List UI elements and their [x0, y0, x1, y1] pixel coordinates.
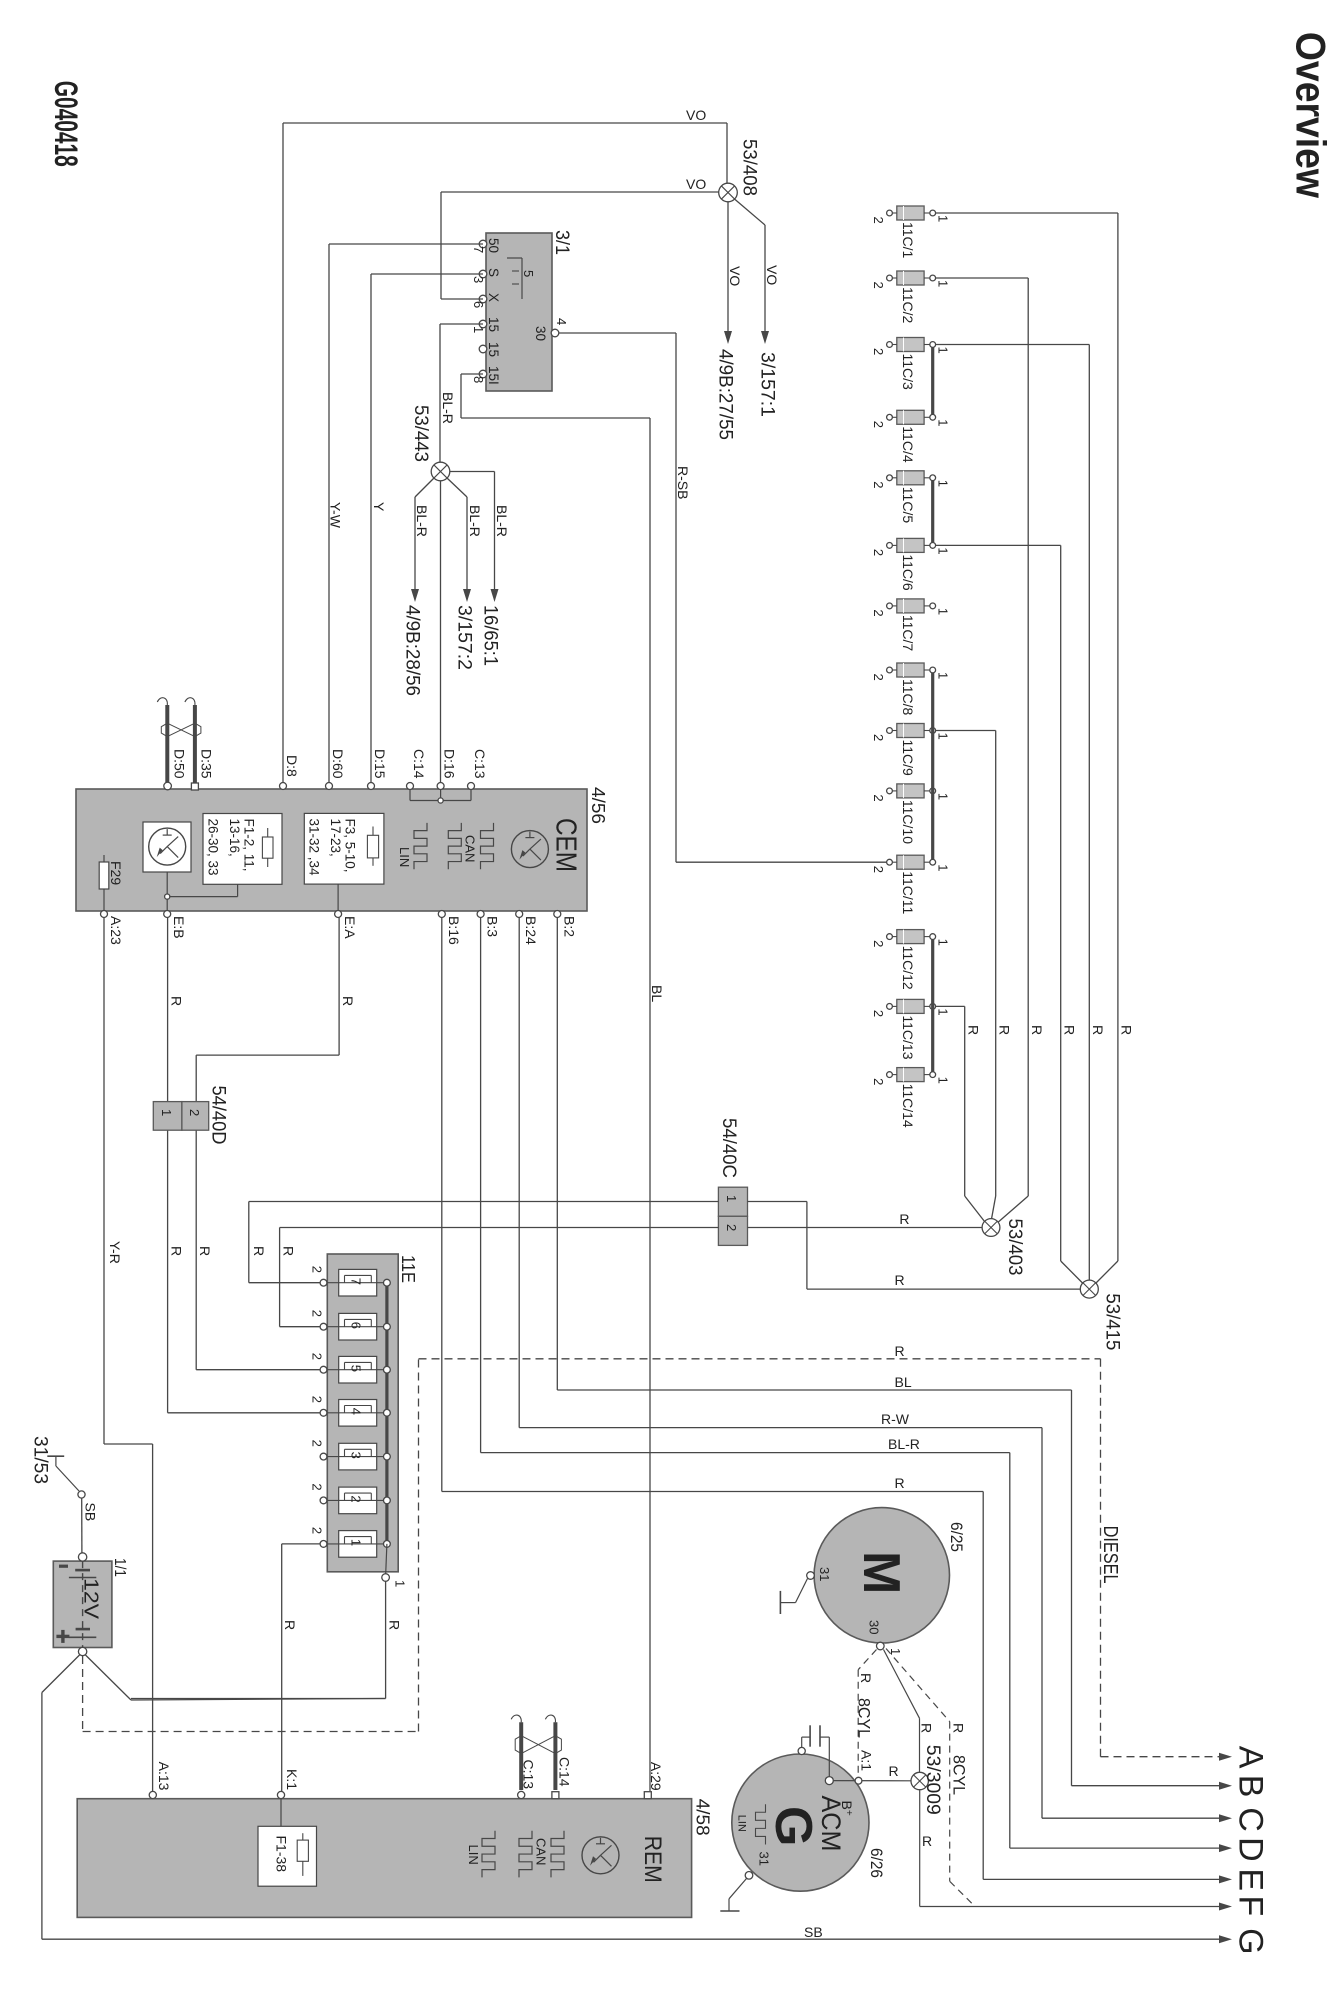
11E fuse 3 right pin — [384, 1453, 391, 1460]
svg-text:4: 4 — [349, 1408, 364, 1415]
svg-text:1: 1 — [724, 1195, 739, 1202]
glow plug 11C/14 — [897, 1068, 924, 1082]
battery pin plus (bottom) — [78, 1647, 86, 1655]
svg-text:11C/9: 11C/9 — [900, 740, 916, 777]
11E fuse 1 right pin — [384, 1541, 391, 1548]
svg-text:F1-38: F1-38 — [274, 1836, 290, 1873]
11E fuse 2 — [339, 1487, 377, 1514]
svg-text:R: R — [1119, 1025, 1135, 1035]
11C/5 pin 2 — [892, 477, 897, 479]
pin 30 (4) — [551, 329, 559, 337]
svg-text:K:1: K:1 — [284, 1769, 300, 1790]
CEM pin C:13 — [468, 783, 475, 790]
svg-text:LIN: LIN — [466, 1845, 481, 1865]
CEM fuse group F1-2, 11, 13-16, 26-30, 33 — [203, 814, 282, 885]
wire BL-R from 3/1 pin 15 to splice 53/443 — [440, 323, 483, 325]
wire R from 11C/9 pin 1 to splice 53/403 — [936, 730, 996, 732]
svg-text:1: 1 — [935, 672, 950, 679]
11C/4 pin 2 — [892, 416, 897, 418]
svg-text:R: R — [197, 1246, 213, 1256]
svg-text:BL-R: BL-R — [888, 1436, 920, 1452]
glow plug 11C/7 — [897, 599, 924, 613]
11E fuse 3 pin 2 — [320, 1453, 327, 1460]
svg-text:R: R — [966, 1025, 982, 1035]
svg-text:1: 1 — [935, 480, 950, 487]
11E fuse 1 pin 2 — [320, 1541, 327, 1548]
svg-text:R: R — [251, 1246, 267, 1256]
wire segment 53/408 down to splice from corner — [726, 123, 728, 184]
11E fuse 7 — [339, 1269, 377, 1296]
svg-text:G: G — [764, 1806, 822, 1846]
pin X (6) — [479, 295, 487, 303]
wire Y-R from CEM A:23 to REM A:13 — [103, 918, 105, 1445]
REM clock symbol — [582, 1837, 619, 1874]
svg-text:53/408: 53/408 — [739, 139, 761, 196]
REM pin K:1 — [277, 1791, 284, 1798]
ACM pin B+ — [825, 1777, 833, 1785]
svg-text:11C/10: 11C/10 — [900, 800, 916, 844]
svg-text:2: 2 — [187, 1109, 202, 1116]
svg-text:E:B: E:B — [171, 916, 187, 939]
11E fuse 6 right pin — [384, 1323, 391, 1330]
ACM suppression capacitor — [809, 1725, 811, 1746]
svg-text:SB: SB — [83, 1503, 99, 1522]
svg-text:31/53: 31/53 — [30, 1436, 51, 1484]
wire R from battery plus to 11E supply rail — [85, 1655, 131, 1701]
splice 53/403 — [982, 1219, 1000, 1237]
svg-text:3/1: 3/1 — [551, 230, 572, 255]
11C/7 pin 1 — [924, 605, 930, 607]
svg-text:30: 30 — [533, 326, 548, 341]
11C/2 pin 1 — [924, 277, 930, 279]
rear electronic module REM 4/58 box — [77, 1799, 691, 1918]
svg-text:53/3009: 53/3009 — [922, 1745, 943, 1815]
svg-text:R: R — [895, 1475, 905, 1491]
fuse box 11E — [327, 1254, 398, 1572]
battery pin minus (top) — [78, 1553, 86, 1561]
svg-text:R: R — [899, 1211, 909, 1227]
svg-text:R: R — [1090, 1025, 1106, 1035]
svg-text:1: 1 — [935, 1077, 950, 1084]
pin S (3) — [479, 270, 487, 278]
11C/2 pin 2 — [892, 277, 897, 279]
REM pin C:14 — [552, 1792, 559, 1799]
CEM LIN symbol — [414, 823, 427, 869]
svg-text:LIN: LIN — [397, 847, 412, 867]
generator ACM 6/26 circle — [732, 1754, 869, 1891]
11E fuse 7 pin 2 — [320, 1279, 327, 1286]
11E fuse 4 right pin — [384, 1409, 391, 1416]
11C/3 pin 2 — [892, 344, 897, 346]
11C/1 pin 2 — [892, 212, 897, 214]
wire VO from 3/1 pin X to splice 53/408 — [441, 298, 483, 300]
CEM pin D:8 — [280, 783, 287, 790]
svg-text:R-W: R-W — [881, 1411, 910, 1427]
wire R from CEM E:A via 54/40D:2 to 11E fuse5 pin 2 — [338, 918, 340, 1056]
wire R from 54/40C pin 2 to splice 53/403 — [748, 1227, 983, 1229]
svg-text:A:13: A:13 — [156, 1762, 172, 1791]
battery internal symbol 12V — [82, 1561, 84, 1647]
M pin 31 — [807, 1572, 815, 1580]
svg-text:2: 2 — [310, 1440, 325, 1447]
svg-text:C: C — [1232, 1807, 1270, 1832]
svg-text:BL: BL — [895, 1374, 912, 1390]
svg-text:G: G — [1232, 1928, 1270, 1954]
svg-text:11C/6: 11C/6 — [900, 554, 916, 591]
svg-text:E: E — [1232, 1868, 1270, 1891]
wire BL from CEM B:2 to arrow B — [556, 918, 558, 1391]
svg-text:C:14: C:14 — [411, 749, 427, 779]
svg-text:LIN: LIN — [736, 1815, 748, 1832]
ignition switch 3/1 box — [486, 233, 552, 391]
wire R from ACM B+ to splice 53/3009 — [833, 1780, 911, 1782]
svg-text:R: R — [951, 1723, 967, 1733]
11C/8 pin 2 — [892, 669, 897, 671]
branch BL-R to arrow 4/9B:28/56 — [415, 478, 434, 497]
11E fuse 3 — [339, 1443, 377, 1470]
glow plug 11C/1 — [897, 206, 924, 220]
REM LIN symbol — [482, 1831, 495, 1878]
svg-text:M: M — [852, 1551, 910, 1594]
svg-text:CEM: CEM — [550, 818, 582, 872]
svg-text:D:60: D:60 — [330, 749, 346, 779]
svg-text:R: R — [858, 1673, 874, 1683]
svg-text:3: 3 — [471, 276, 486, 283]
wire VO from CEM D:8 up and right to splice 53/408 — [282, 123, 284, 789]
svg-text:BL: BL — [649, 985, 665, 1002]
wire R from CEM B:16 to arrow E — [441, 918, 443, 1492]
svg-text:7: 7 — [471, 246, 486, 253]
wire BL-R from CEM B:3 to arrow D — [480, 918, 482, 1453]
svg-text:2: 2 — [871, 940, 886, 947]
svg-text:31: 31 — [817, 1567, 832, 1581]
link bar 11C/5-11C/6 — [931, 481, 934, 543]
svg-text:6: 6 — [471, 301, 486, 308]
connector 54/40D — [153, 1102, 182, 1131]
11E fuse 4 — [339, 1400, 377, 1427]
svg-text:R: R — [281, 1246, 297, 1256]
svg-text:2: 2 — [871, 609, 886, 616]
svg-text:R-SB: R-SB — [675, 466, 691, 499]
splice 53/3009 — [911, 1772, 928, 1789]
svg-text:1: 1 — [935, 347, 950, 354]
svg-text:30: 30 — [867, 1620, 882, 1634]
svg-text:1: 1 — [935, 939, 950, 946]
svg-text:1: 1 — [159, 1109, 174, 1116]
wire R from 11C/1 pin 1 to splice 53/415 — [936, 212, 1118, 214]
wire R-SB from 3/1 pin 30 to 11C/11 pin 2 — [559, 332, 676, 334]
wire R from 54/40C pin 2 to 11E fuse6 pin 2 — [280, 1227, 719, 1229]
glow plug 11C/3 — [897, 338, 924, 352]
wire Y-W from 3/1 pin 50 to CEM D:60 — [329, 243, 483, 245]
svg-text:VO: VO — [686, 107, 706, 123]
svg-text:4/58: 4/58 — [693, 1799, 714, 1836]
svg-text:15I: 15I — [486, 366, 501, 385]
pin 15I (8) — [479, 370, 487, 378]
link bar 11C/3-11C/4 — [931, 348, 934, 415]
svg-text:R: R — [922, 1833, 932, 1849]
svg-text:3/157:2: 3/157:2 — [454, 605, 476, 670]
CEM pin E:A — [335, 911, 342, 918]
glow plug 11C/10 — [897, 784, 924, 798]
svg-text:1: 1 — [935, 608, 950, 615]
REM twisted pair to C:13 C:14 — [519, 1722, 523, 1790]
11E fuse 4 pin 2 — [320, 1409, 327, 1416]
svg-text:F29: F29 — [108, 861, 124, 885]
wire Y from 3/1 pin S to CEM D:15 — [371, 273, 483, 275]
svg-text:1: 1 — [471, 326, 486, 333]
glow plug 11C/2 — [897, 271, 924, 285]
svg-text:DIESEL: DIESEL — [1099, 1526, 1121, 1584]
svg-text:B:24: B:24 — [523, 916, 539, 945]
svg-text:Y-R: Y-R — [107, 1241, 123, 1264]
svg-text:R: R — [386, 1620, 402, 1630]
svg-text:D:35: D:35 — [199, 749, 215, 779]
CEM pin D:50 — [164, 782, 172, 790]
svg-text:VO: VO — [764, 265, 780, 285]
svg-text:11C/14: 11C/14 — [900, 1084, 916, 1128]
svg-text:1: 1 — [393, 1580, 408, 1587]
dashed wire R DIESEL variant from battery plus to arrow A — [82, 1656, 84, 1732]
svg-text:11C/1: 11C/1 — [900, 222, 916, 259]
svg-text:1: 1 — [935, 547, 950, 554]
CEM internal link C:14 to C:13 with junction to D:16 — [409, 789, 411, 801]
splice 53/408 — [719, 183, 738, 202]
svg-text:11C/7: 11C/7 — [900, 615, 916, 652]
svg-text:12V: 12V — [80, 1578, 102, 1620]
wire SB ground switch to battery minus — [81, 1498, 83, 1553]
svg-text:53/443: 53/443 — [410, 405, 432, 462]
CEM fuse group F3, 5-10, 17-23, 31-32, 34 — [304, 813, 384, 884]
svg-text:6/25: 6/25 — [947, 1522, 966, 1552]
svg-text:11C/12: 11C/12 — [900, 946, 916, 990]
svg-text:R: R — [169, 1246, 185, 1256]
connector 54/40C — [718, 1187, 747, 1216]
svg-text:11E: 11E — [398, 1255, 418, 1283]
11C/14 pin 1 — [924, 1074, 930, 1076]
11C/6 pin 1 — [924, 544, 930, 546]
ground 31/53 — [47, 1455, 64, 1457]
svg-text:BL-R: BL-R — [440, 392, 456, 424]
REM pin A:13 — [149, 1791, 156, 1798]
svg-text:2: 2 — [871, 348, 886, 355]
M pin 30 — [877, 1642, 885, 1650]
11E fuse 1 — [339, 1531, 377, 1558]
svg-text:8: 8 — [471, 376, 486, 383]
CEM internal wire from E:B to fuse group F1 — [166, 872, 168, 911]
11E fuse 5 right pin — [384, 1366, 391, 1373]
11C/14 pin 2 — [892, 1074, 897, 1076]
11C/9 pin 1 — [924, 730, 930, 732]
svg-text:CAN: CAN — [534, 1838, 549, 1865]
dashed wire R 8CYL from M:30 merging to arrow F wire — [886, 1649, 950, 1722]
ACM top pin — [798, 1747, 805, 1754]
wire VO from splice down to arrow 4/9B:27/55 — [727, 202, 729, 331]
ACM pin 31 — [745, 1872, 753, 1880]
CEM pin D:16 — [437, 783, 444, 790]
svg-text:2: 2 — [871, 866, 886, 873]
svg-text:3/157:1: 3/157:1 — [757, 352, 779, 417]
wire R from M:30 to splice 53/3009 — [884, 1650, 920, 1719]
glow plug 11C/5 — [897, 471, 924, 485]
wire R from 11E fuse1 pin 2 to REM K:1 — [282, 1543, 320, 1545]
11C/4 pin 1 — [924, 416, 930, 418]
splice 53/415 — [1080, 1280, 1098, 1298]
svg-text:13-16,: 13-16, — [227, 819, 242, 857]
REM internal fuse F1-38 — [280, 1799, 282, 1827]
wire R from CEM E:B to 11E fuse4 pin 2 — [167, 918, 169, 1413]
11C/11 pin 2 — [892, 861, 897, 863]
svg-text:16/65:1: 16/65:1 — [480, 605, 502, 666]
link bar 11C/8-11C/11 — [931, 673, 934, 859]
11E fuse 6 pin 2 — [320, 1323, 327, 1330]
CEM twisted pair wires to D:50 and D:35 — [165, 705, 169, 783]
wire BL from 3/1 pin 15I down to REM A:29 — [461, 373, 483, 375]
11C/1 pin 1 — [924, 212, 930, 214]
11C/7 pin 2 — [892, 605, 897, 607]
svg-text:R: R — [889, 1763, 899, 1779]
dashed wire R 8CYL from M:30 to ACM A:1 — [858, 1650, 876, 1670]
CEM internal fuse F29 — [103, 855, 105, 911]
svg-text:2: 2 — [871, 674, 886, 681]
svg-text:S: S — [486, 268, 501, 277]
svg-text:Overview: Overview — [1288, 32, 1335, 198]
svg-text:2: 2 — [310, 1396, 325, 1403]
ACM LIN symbol — [756, 1804, 766, 1844]
svg-text:11C/8: 11C/8 — [900, 679, 916, 716]
svg-text:11C/4: 11C/4 — [900, 426, 916, 463]
svg-text:C:14: C:14 — [557, 1757, 573, 1787]
battery 1/1 — [53, 1561, 112, 1647]
11C/12 pin 1 — [924, 936, 930, 938]
svg-text:VO: VO — [727, 266, 743, 286]
svg-text:31-32 ,34: 31-32 ,34 — [307, 819, 322, 877]
wire R from 11E pin 1 to battery plus rail — [385, 1581, 387, 1698]
svg-text:R: R — [1062, 1025, 1078, 1035]
svg-text:B:2: B:2 — [561, 916, 577, 937]
svg-text:SB: SB — [804, 1924, 823, 1940]
svg-text:2: 2 — [871, 549, 886, 556]
11E fuse 2 right pin — [384, 1497, 391, 1504]
glow plug 11C/13 — [897, 999, 924, 1013]
REM pin C:13 — [518, 1791, 525, 1798]
11C/13 pin 2 — [892, 1005, 897, 1007]
CEM pin B:24 — [516, 911, 523, 918]
11E fuse 5 — [339, 1356, 377, 1383]
svg-text:VO: VO — [686, 176, 706, 192]
svg-text:2: 2 — [871, 421, 886, 428]
CEM internal wire from fuse group to E:A — [337, 884, 339, 911]
svg-text:R: R — [169, 996, 185, 1006]
svg-text:X: X — [486, 293, 501, 302]
glow plug 11C/11 — [897, 855, 924, 869]
svg-text:1: 1 — [935, 864, 950, 871]
svg-text:5: 5 — [349, 1365, 364, 1372]
CEM pin D:15 — [368, 783, 375, 790]
11C/9 pin 2 — [892, 730, 897, 732]
svg-text:2: 2 — [871, 481, 886, 488]
branch BL-R to arrow 16/65:1 — [450, 471, 495, 473]
11C/10 pin 1 — [924, 790, 930, 792]
CEM pin A:23 — [101, 911, 108, 918]
pin 50 (7) — [479, 240, 487, 248]
11E internal bus bar — [385, 1283, 388, 1544]
svg-text:54/40D: 54/40D — [208, 1086, 230, 1145]
svg-text:Y-W: Y-W — [328, 502, 344, 529]
svg-text:A:1: A:1 — [859, 1750, 875, 1771]
svg-text:2: 2 — [310, 1353, 325, 1360]
svg-text:26-30, 33: 26-30, 33 — [206, 819, 221, 876]
svg-text:2: 2 — [724, 1224, 739, 1231]
CEM clock symbol right — [511, 831, 548, 868]
wire R from 54/40C pin 1 to 11E fuse7 pin 2 — [249, 1201, 719, 1203]
wire R from 54/40C pin 1 to splice 53/415 — [748, 1201, 807, 1203]
svg-text:1: 1 — [349, 1539, 364, 1546]
svg-text:53/403: 53/403 — [1004, 1219, 1026, 1276]
central electronic module CEM 4/56 box — [76, 789, 587, 911]
ACM pin A:1 junction on B+ wire — [855, 1777, 862, 1784]
svg-text:B:3: B:3 — [485, 916, 501, 937]
wire R from splice 53/3009 to arrow F — [919, 1790, 921, 1907]
11C/11 pin 1 — [924, 861, 930, 863]
pin 15 (1) — [479, 320, 487, 328]
ACM ground symbol — [729, 1879, 747, 1899]
svg-text:A:23: A:23 — [108, 916, 124, 945]
svg-text:50: 50 — [486, 238, 501, 253]
REM pin A:29 — [644, 1792, 651, 1799]
11C/5 pin 1 — [924, 477, 930, 479]
wire R from 11C/6 pin 1 to splice 53/415 — [936, 544, 1061, 546]
svg-text:2: 2 — [871, 282, 886, 289]
svg-text:6/26: 6/26 — [867, 1848, 886, 1878]
wire VO diagonal from splice to arrow 3/157:1 — [735, 199, 766, 225]
wire R from 11C/13 pin 1 to splice 53/403 — [936, 1005, 965, 1007]
svg-text:BL-R: BL-R — [467, 505, 483, 537]
svg-text:B:16: B:16 — [446, 916, 462, 945]
svg-text:17-23,: 17-23, — [328, 819, 343, 857]
svg-text:REM: REM — [639, 1836, 666, 1883]
svg-text:1: 1 — [935, 733, 950, 740]
svg-text:1: 1 — [935, 419, 950, 426]
wire R from 11C/2 pin 1 to splice 53/403 — [936, 277, 1029, 279]
svg-text:R: R — [1029, 1025, 1045, 1035]
11C/12 pin 2 — [892, 936, 897, 938]
svg-text:R: R — [997, 1025, 1013, 1035]
svg-text:8CYL: 8CYL — [855, 1698, 874, 1738]
svg-text:6: 6 — [349, 1322, 364, 1329]
svg-text:C:13: C:13 — [472, 749, 488, 779]
svg-text:A:29: A:29 — [648, 1762, 664, 1791]
11E fuse 7 right pin — [384, 1279, 391, 1286]
svg-text:BL-R: BL-R — [494, 505, 510, 537]
CEM internal clock symbol in white box — [143, 822, 191, 872]
CEM pin C:14 — [407, 783, 414, 790]
svg-text:C:13: C:13 — [521, 1760, 537, 1790]
11C/10 pin 2 — [892, 790, 897, 792]
wire R from 11C/3 pin 1 to splice 53/415 — [936, 344, 1090, 346]
svg-text:8CYL: 8CYL — [950, 1755, 969, 1795]
svg-text:1: 1 — [935, 280, 950, 287]
11E fuse 6 — [339, 1313, 377, 1340]
svg-text:2: 2 — [871, 1010, 886, 1017]
svg-text:2: 2 — [310, 1483, 325, 1490]
svg-text:11C/13: 11C/13 — [900, 1015, 916, 1059]
svg-text:2: 2 — [871, 734, 886, 741]
CEM pin B:3 — [477, 911, 484, 918]
svg-text:4: 4 — [554, 318, 569, 325]
svg-text:4/9B:28/56: 4/9B:28/56 — [402, 605, 424, 696]
svg-text:2: 2 — [349, 1495, 364, 1502]
